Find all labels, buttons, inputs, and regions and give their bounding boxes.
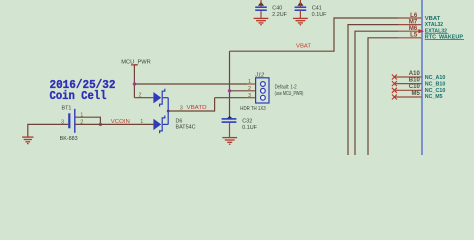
svg-text:VBATD: VBATD: [187, 105, 207, 111]
sheet connector bus line: [421, 0, 423, 155]
wire battery pin3 to ground: [28, 124, 68, 137]
svg-text:XTAL32: XTAL32: [425, 22, 443, 28]
ground battery: [22, 137, 33, 144]
svg-text:(use MCU_PWR): (use MCU_PWR): [275, 91, 304, 97]
capacitor C41: [295, 5, 328, 18]
pin C10 stub with no-connect: [394, 89, 421, 91]
svg-text:M7: M7: [409, 19, 418, 25]
battery pin1 loop: [75, 117, 101, 124]
wire VBATD: [168, 98, 214, 111]
junction D6 cathode: [167, 110, 170, 113]
pin A10 stub with no-connect: [394, 76, 421, 78]
D6 common cathode: [167, 98, 169, 125]
power port MCU_PWR: [121, 59, 151, 65]
power arrow above C41: [297, 2, 303, 6]
wire EXTAL32: [355, 31, 398, 155]
svg-text:2: 2: [248, 86, 251, 92]
svg-text:1: 1: [80, 113, 83, 119]
svg-text:3: 3: [248, 93, 251, 99]
wire MCU_PWR down: [133, 65, 135, 98]
junction MCU_PWR / J12 pin1: [133, 82, 136, 85]
ground under C32: [222, 138, 237, 145]
capacitor C40: [255, 5, 288, 18]
battery BT1: [60, 106, 78, 142]
connector J12: [240, 72, 269, 112]
wire C40 top: [260, 0, 262, 7]
diode D6 bottom: [153, 116, 168, 134]
svg-text:0.1UF: 0.1UF: [312, 12, 328, 18]
arrow EXTAL32: [418, 29, 424, 33]
wire C40 to ground: [260, 10, 262, 18]
svg-text:3: 3: [61, 120, 64, 126]
pin M6 stub: [398, 30, 422, 32]
svg-text:A10: A10: [409, 71, 421, 77]
svg-text:M5: M5: [411, 91, 420, 97]
wire RTC_WAKEUP: [368, 38, 398, 155]
svg-text:L5: L5: [410, 33, 418, 39]
power arrow above C40: [258, 2, 264, 6]
svg-text:3: 3: [180, 105, 183, 111]
svg-text:BAT54C: BAT54C: [176, 125, 196, 131]
svg-text:C32: C32: [242, 118, 252, 124]
wire VCOIN: [75, 123, 154, 125]
svg-text:J12: J12: [254, 72, 264, 78]
svg-text:BK-883: BK-883: [60, 136, 78, 142]
wire to J12 pin 2: [230, 90, 248, 92]
svg-text:Default: 1-2: Default: 1-2: [275, 84, 297, 90]
svg-text:C41: C41: [312, 5, 322, 11]
svg-text:1: 1: [140, 119, 143, 125]
wire XTAL32: [348, 25, 398, 155]
wire to J12 pin 1: [134, 83, 247, 85]
wire C41 to ground: [299, 10, 301, 18]
svg-text:B10: B10: [409, 77, 421, 83]
svg-text:NC_A10: NC_A10: [425, 75, 446, 81]
svg-text:NC_B10: NC_B10: [425, 82, 446, 88]
wire to J12 pin 3: [215, 97, 247, 99]
svg-text:M6: M6: [409, 26, 418, 32]
pin L6 stub: [398, 17, 422, 19]
svg-text:1: 1: [248, 79, 251, 85]
svg-text:HDR TH 1X3: HDR TH 1X3: [240, 106, 265, 112]
svg-text:Coin Cell: Coin Cell: [50, 89, 107, 103]
wire C32 to ground: [229, 122, 231, 137]
pin M7 stub: [398, 24, 422, 26]
svg-text:VBAT: VBAT: [296, 44, 312, 50]
ground under C40: [254, 18, 269, 24]
wire C41 top: [299, 0, 301, 7]
svg-text:BT1: BT1: [62, 106, 72, 112]
svg-text:2: 2: [138, 93, 141, 99]
pin B10 stub with no-connect: [394, 83, 421, 85]
wire D6 pin2 anode: [134, 97, 153, 99]
svg-text:C40: C40: [272, 5, 282, 11]
svg-text:2.2UF: 2.2UF: [272, 12, 288, 18]
wire VBAT net (J12 pin2 riser to port L6): [230, 18, 399, 118]
svg-text:C10: C10: [409, 84, 421, 90]
svg-text:VCOIN: VCOIN: [111, 119, 130, 125]
pin L5 stub: [398, 37, 422, 39]
junction battery output: [99, 123, 102, 126]
svg-text:0.1UF: 0.1UF: [242, 125, 258, 131]
junction J12 pin2 / VBAT: [228, 89, 231, 92]
pin M5 stub with no-connect: [394, 96, 421, 98]
capacitor C32: [222, 116, 258, 131]
svg-text:L6: L6: [410, 13, 418, 19]
diode D6 top: [153, 89, 168, 107]
svg-text:NC_M5: NC_M5: [425, 94, 443, 100]
ground under C41: [293, 18, 308, 24]
